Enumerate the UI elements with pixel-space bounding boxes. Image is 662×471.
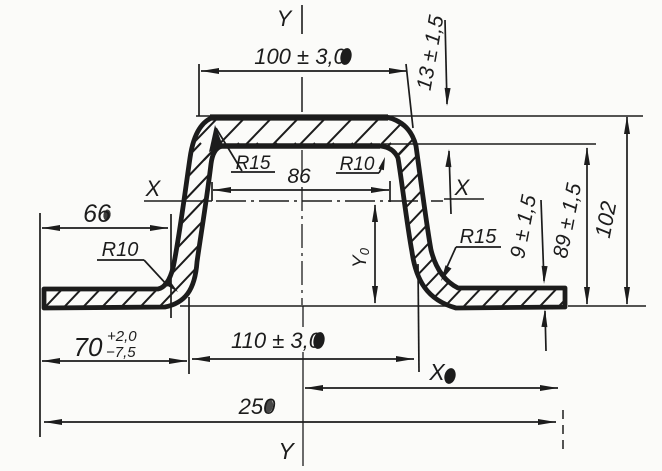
label X left: [145, 176, 162, 201]
radius label R15 right: [441, 226, 501, 281]
dimension 100 ± 3,0: [201, 44, 407, 74]
svg-text:X: X: [454, 175, 471, 200]
svg-text:−7,5: −7,5: [106, 344, 136, 361]
svg-text:R15: R15: [236, 153, 271, 174]
svg-text:X: X: [145, 176, 162, 201]
long left extension line: [39, 213, 41, 437]
svg-text:86: 86: [287, 165, 311, 188]
label X right: [454, 175, 471, 200]
dashed extension below right flange end: [562, 410, 564, 451]
dimension X0: [305, 359, 558, 391]
extension line right of 100 dim: [406, 64, 413, 128]
extension line left of 100 dim: [196, 64, 221, 116]
svg-text:+2,0: +2,0: [107, 328, 137, 345]
inner top surface extension line right: [383, 143, 596, 145]
dimension 9 ± 1,5: [506, 193, 547, 351]
radius label R10 left: [97, 239, 178, 292]
svg-text:R10: R10: [340, 154, 375, 175]
dimension 66: [42, 200, 168, 231]
dimension Y0: [350, 204, 378, 304]
dimension 250: [44, 394, 556, 425]
dimension 89 ± 1,5: [549, 147, 590, 305]
radius label R10 top-right: [336, 154, 385, 175]
svg-text:X: X: [428, 359, 446, 385]
dimension 110 ± 3,0: [192, 328, 414, 362]
top surface extension line right: [385, 115, 643, 117]
datum line under profile: [180, 305, 455, 307]
dimension 70 +2,0 -7,5: [42, 328, 187, 364]
extension line right of 110 dim: [418, 264, 419, 372]
X axis centerline: [144, 199, 484, 201]
extension line right of 66 dim: [170, 214, 172, 318]
radius label R15 top-left: [209, 125, 275, 174]
extension ticks 86 dim: [212, 181, 390, 202]
svg-text:Y: Y: [278, 438, 295, 464]
svg-text:100 ± 3,0: 100 ± 3,0: [254, 44, 346, 69]
extension line between 70 and 110 dims: [188, 297, 190, 374]
svg-text:Y: Y: [277, 6, 293, 31]
dimension 86: [213, 165, 389, 193]
svg-text:110 ± 3,0: 110 ± 3,0: [231, 328, 322, 353]
svg-text:R15: R15: [460, 226, 498, 248]
label Y top: [277, 6, 293, 31]
dimension 13 ± 1,5: [413, 13, 452, 214]
svg-text:70: 70: [74, 332, 103, 362]
dimension 102: [590, 116, 630, 305]
Y axis centerline: [302, 5, 303, 466]
label Y bottom: [278, 438, 295, 464]
flange bottom extension line right: [568, 305, 646, 307]
hat profile cross-section outline: [44, 117, 565, 308]
svg-text:R10: R10: [102, 239, 139, 261]
